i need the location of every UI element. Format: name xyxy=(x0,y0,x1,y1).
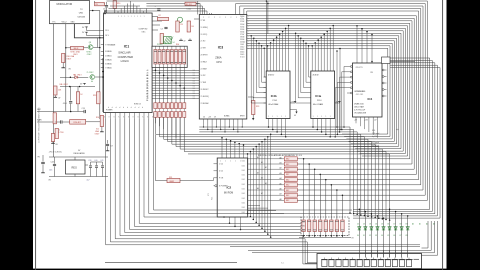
resistor R13 xyxy=(97,92,100,104)
svg-text:4u7: 4u7 xyxy=(87,180,90,182)
IC3 bottom pins xyxy=(203,119,205,127)
svg-text:IC4b: IC4b xyxy=(271,94,277,98)
svg-text:29: 29 xyxy=(214,116,216,118)
svg-text:27 M1: 27 M1 xyxy=(201,20,206,22)
drops to IC4a top pins xyxy=(311,46,313,71)
keyboard line KB8 xyxy=(144,119,301,217)
svg-text:POWER: POWER xyxy=(106,110,113,112)
IC1 left pin stubs xyxy=(101,30,104,32)
svg-text:D8: D8 xyxy=(399,223,401,225)
resistor R14 xyxy=(53,113,56,124)
svg-text:1: 1 xyxy=(128,16,129,18)
svg-text:1: 1 xyxy=(144,16,145,18)
+5V right of IC4a xyxy=(339,101,341,103)
svg-text:K8: K8 xyxy=(406,235,408,237)
svg-text:8K ROM: 8K ROM xyxy=(224,191,233,194)
svg-text:MIC: MIC xyxy=(37,109,41,111)
svg-text:8K2: 8K2 xyxy=(286,159,289,161)
svg-text:Q8: Q8 xyxy=(89,42,91,44)
resistor R24 4K7 xyxy=(70,120,86,125)
svg-text:A2: A2 xyxy=(280,167,282,170)
svg-text:K: K xyxy=(133,117,134,119)
svg-text:K2: K2 xyxy=(369,235,371,237)
keyboard line KB7 xyxy=(139,119,301,223)
svg-text:D0 1: D0 1 xyxy=(242,175,245,177)
junction xyxy=(69,86,71,88)
svg-text:by IC4: by IC4 xyxy=(372,136,377,138)
junction xyxy=(102,76,104,78)
wire from IC1 right xyxy=(152,16,158,18)
svg-text:K: K xyxy=(142,117,143,119)
connector end dash xyxy=(414,258,420,260)
svg-text:23 BUSAK: 23 BUSAK xyxy=(201,102,210,105)
ground xyxy=(62,66,64,68)
wire resistor to transistor xyxy=(84,47,89,49)
resistor R31 680R xyxy=(167,178,180,182)
svg-text:SINCLAIR: SINCLAIR xyxy=(118,51,130,55)
svg-text:D0 1: D0 1 xyxy=(242,165,245,167)
ground xyxy=(180,39,182,41)
capacitor C9 xyxy=(106,143,109,145)
svg-text:R3: R3 xyxy=(181,24,183,26)
svg-text:24 WAIT: 24 WAIT xyxy=(201,67,208,70)
svg-text:IC4a: IC4a xyxy=(315,94,321,98)
svg-text:D0 1: D0 1 xyxy=(242,189,245,191)
ground below R17 xyxy=(52,142,54,144)
svg-text:COPYRIGHT SINCLAIR RESEARCH LT: COPYRIGHT SINCLAIR RESEARCH LTD xyxy=(38,107,41,143)
left letterbox bar xyxy=(0,0,33,270)
resistor row 1 xyxy=(154,103,157,109)
resistor row 2 xyxy=(154,112,157,118)
svg-text:21 RD: 21 RD xyxy=(201,41,207,43)
transistor TR1 NTSC xyxy=(88,45,93,50)
resistor R8 380R xyxy=(71,46,84,49)
svg-text:K5: K5 xyxy=(387,235,389,237)
staircase resistor rows to lower bus xyxy=(154,117,156,134)
diode D1 xyxy=(358,227,361,230)
svg-text:o/p: o/p xyxy=(396,129,398,131)
wire to diode xyxy=(60,76,75,78)
EAR wire xyxy=(37,121,60,123)
diode D2 xyxy=(364,227,367,230)
IC3 top right pin bends xyxy=(235,4,237,15)
svg-text:-5V 1 OSC: -5V 1 OSC xyxy=(356,94,365,96)
wire transistor out xyxy=(95,76,103,78)
keyboard line KB4 xyxy=(125,119,301,233)
svg-text:D4: D4 xyxy=(375,223,377,225)
right letterbox bar xyxy=(447,0,480,270)
IC4 left staircase wires xyxy=(344,67,347,128)
battery wire xyxy=(42,155,44,162)
svg-text:D0: D0 xyxy=(193,75,195,77)
diode D3 xyxy=(370,227,373,230)
svg-text:NTSC: NTSC xyxy=(87,51,93,53)
svg-text:1: 1 xyxy=(330,116,331,118)
voltage regulator box xyxy=(66,160,86,174)
schematic frame left border xyxy=(35,0,37,270)
svg-text:D0 1: D0 1 xyxy=(242,184,245,186)
wire 0V IC4b xyxy=(290,109,297,111)
svg-text:8K2: 8K2 xyxy=(286,190,289,192)
svg-text:ONLY: ONLY xyxy=(87,54,93,56)
resistor R17 xyxy=(51,134,54,142)
vertical wires from top edge xyxy=(265,1,267,71)
diode verticals and diodes D1-D9 xyxy=(358,209,360,257)
svg-text:7 KB4D: 7 KB4D xyxy=(105,67,112,69)
drops to IC4 top pins xyxy=(356,26,358,63)
resistor R5 xyxy=(160,34,163,44)
svg-text:4 KB1D: 4 KB1D xyxy=(105,55,112,57)
svg-text:D0: D0 xyxy=(193,83,195,85)
resistor R2 xyxy=(158,17,169,20)
svg-text:26 RESET: 26 RESET xyxy=(201,89,209,91)
IC2 ROM box xyxy=(217,158,248,217)
svg-text:8K2: 8K2 xyxy=(286,179,289,181)
svg-text:4k: 4k xyxy=(91,81,93,83)
svg-text:KB3: KB3 xyxy=(302,230,305,232)
svg-text:1: 1 xyxy=(131,16,132,18)
svg-text:K: K xyxy=(114,117,115,119)
wire vertical video line xyxy=(99,11,101,120)
wire to IC3 xyxy=(194,18,199,20)
svg-text:REGULATED: REGULATED xyxy=(74,152,86,155)
svg-text:D0 1: D0 1 xyxy=(242,198,245,200)
svg-text:8K2: 8K2 xyxy=(286,164,289,166)
resistor pack 8 elements xyxy=(154,50,157,65)
IC4 left pins with bubbles xyxy=(350,66,352,68)
svg-text:12B: 12B xyxy=(370,72,373,74)
svg-text:C39: C39 xyxy=(88,160,91,162)
svg-text:N.B.: N.B. xyxy=(372,130,376,132)
bus IC1 to IC3 xyxy=(152,69,199,71)
svg-text:IC6: IC6 xyxy=(96,128,99,130)
svg-text:COMPUTER: COMPUTER xyxy=(118,55,133,59)
junction xyxy=(104,13,106,15)
svg-text:16 INT: 16 INT xyxy=(201,75,206,77)
IC4a left pin wires xyxy=(309,46,311,77)
keyboard line KB0 xyxy=(106,119,420,245)
diode D4 xyxy=(376,227,379,230)
keyboard connector outer box xyxy=(317,254,422,269)
svg-text:D6: D6 xyxy=(387,223,389,225)
svg-text:D0 1: D0 1 xyxy=(242,170,245,172)
resistor R10 xyxy=(113,1,116,9)
svg-text:K: K xyxy=(104,117,105,119)
wire to resistor xyxy=(66,47,71,49)
svg-text:D0: D0 xyxy=(193,91,195,93)
wire transistor to video line xyxy=(93,47,100,49)
svg-text:VID+2: VID+2 xyxy=(62,22,67,24)
svg-text:S=1: S=1 xyxy=(281,263,284,265)
svg-text:1: 1 xyxy=(277,116,278,118)
right bundle into connector right side xyxy=(422,221,429,248)
svg-text:D0: D0 xyxy=(193,98,195,100)
wire from IC1 right 3 xyxy=(152,24,160,26)
svg-text:R31: R31 xyxy=(169,177,172,179)
svg-text:KB1: KB1 xyxy=(302,222,305,224)
svg-text:R16: R16 xyxy=(96,117,99,119)
svg-text:28 RFSH: 28 RFSH xyxy=(201,55,209,57)
8 vertical resistors in dashed box xyxy=(302,220,305,232)
svg-text:K: K xyxy=(128,117,129,119)
svg-text:UM1233: UM1233 xyxy=(78,16,86,18)
svg-text:D0 1: D0 1 xyxy=(242,161,245,163)
svg-text:D0: D0 xyxy=(193,70,195,72)
svg-text:17 NMI: 17 NMI xyxy=(201,82,207,84)
capacitor C44 xyxy=(53,163,56,165)
svg-text:D0 1: D0 1 xyxy=(242,193,245,195)
junction xyxy=(104,10,106,12)
diode D5 xyxy=(382,227,385,230)
svg-text:K: K xyxy=(123,117,124,119)
svg-text:R4: R4 xyxy=(192,26,194,28)
svg-text:d: d xyxy=(135,107,136,109)
connector top entry stubs xyxy=(358,250,360,258)
svg-text:680R: 680R xyxy=(170,181,175,183)
svg-text:D9: D9 xyxy=(406,223,408,225)
capacitor C8 xyxy=(105,5,108,7)
svg-text:D0: D0 xyxy=(193,73,195,75)
svg-text:D0: D0 xyxy=(193,93,195,95)
wire from IC1 right 2 xyxy=(152,20,162,22)
wire modulator GND to IC1 xyxy=(74,24,103,38)
transistor TR2 PAL xyxy=(90,75,95,80)
svg-text:4Kx1 RAM: 4Kx1 RAM xyxy=(268,103,278,106)
schematic frame right border xyxy=(442,0,444,270)
svg-text:6 KB3D: 6 KB3D xyxy=(105,63,112,65)
svg-text:K0: K0 xyxy=(357,235,359,237)
bottom horizontal wire xyxy=(105,261,237,263)
resistor R15 xyxy=(55,129,58,139)
diode D9 xyxy=(75,76,78,79)
svg-text:KB2: KB2 xyxy=(302,226,305,228)
svg-text:16Kx1 RAM: 16Kx1 RAM xyxy=(354,106,364,109)
IC4b bottom pin drops xyxy=(268,119,270,128)
svg-text:D0: D0 xyxy=(193,88,195,90)
drops to keyboard resistor pack xyxy=(303,159,305,220)
capacitor C12 xyxy=(104,10,106,13)
svg-text:EAR: EAR xyxy=(37,119,42,122)
svg-text:8K2: 8K2 xyxy=(286,200,289,202)
capacitor C14 47uF xyxy=(69,101,72,103)
IC4a RAM 2114 box xyxy=(311,71,335,119)
resistor R23 xyxy=(252,101,255,115)
wire from X2 xyxy=(390,61,415,63)
svg-text:D0 1: D0 1 xyxy=(242,202,245,204)
svg-text:by 5V rail: by 5V rail xyxy=(372,144,380,147)
svg-text:P. ONLY: P. ONLY xyxy=(87,72,95,74)
top-left bus horizontals xyxy=(106,10,147,12)
svg-text:K3: K3 xyxy=(375,235,377,237)
svg-text:18 HALT: 18 HALT xyxy=(201,60,208,63)
svg-text:REG: REG xyxy=(72,166,77,169)
svg-text:TR4: TR4 xyxy=(60,132,63,134)
IC1 bottom pin stubs xyxy=(105,113,107,120)
resistor R1 xyxy=(185,2,196,5)
diode D8 xyxy=(400,227,403,230)
wire down to cap xyxy=(70,87,72,101)
svg-text:D0 1: D0 1 xyxy=(242,207,245,209)
svg-text:K1: K1 xyxy=(363,235,365,237)
svg-text:D1: D1 xyxy=(357,223,359,225)
diode D6 xyxy=(388,227,391,230)
svg-text:R24 4K7: R24 4K7 xyxy=(74,122,81,124)
svg-text:26: 26 xyxy=(203,116,205,118)
svg-text:380 R: 380 R xyxy=(74,48,79,50)
svg-text:K7: K7 xyxy=(399,235,401,237)
wire to R31 xyxy=(154,135,156,181)
svg-text:d: d xyxy=(112,107,113,109)
svg-text:K: K xyxy=(118,117,119,119)
drops to IC4b top pins xyxy=(267,46,269,71)
wire cap bottom xyxy=(106,8,108,11)
+2V mark xyxy=(86,32,88,34)
svg-text:4Kx1 RAM: 4Kx1 RAM xyxy=(313,103,323,106)
svg-text:D7: D7 xyxy=(393,223,395,225)
IC1 top pin wires to bus xyxy=(117,11,119,13)
svg-text:D2: D2 xyxy=(363,223,365,225)
svg-text:GND: GND xyxy=(71,22,76,24)
resistor R16 xyxy=(100,116,103,127)
diode D7 xyxy=(394,227,397,230)
svg-text:C44: C44 xyxy=(51,162,54,164)
svg-text:COMP VID: COMP VID xyxy=(139,29,149,31)
svg-text:D5: D5 xyxy=(381,223,383,225)
svg-text:K: K xyxy=(147,117,148,119)
wire modulator VID down xyxy=(65,24,67,112)
resistor R9 xyxy=(95,3,105,6)
svg-text:A6: A6 xyxy=(280,188,282,191)
verticals pack to resistor rows xyxy=(154,68,156,104)
main address/data bus: top runs, right verticals, lower left runs xyxy=(107,1,428,200)
ground below R16 xyxy=(101,130,103,132)
IC3 top pins to top bus xyxy=(197,1,199,15)
svg-text:d: d xyxy=(116,107,117,109)
wire resistor top stub xyxy=(94,1,96,3)
svg-text:8K2: 8K2 xyxy=(286,195,289,197)
transistor TR3 xyxy=(177,17,182,22)
IC1 ULA Sinclair logic chip xyxy=(104,13,153,113)
IC2 top pin wires xyxy=(221,138,223,158)
junction xyxy=(55,121,57,123)
svg-text:NTSC USA: NTSC USA xyxy=(71,50,81,53)
wire horizontal xyxy=(60,86,95,88)
battery symbol xyxy=(41,161,45,163)
svg-text:8K2: 8K2 xyxy=(286,185,289,187)
long bottom wrap lines xyxy=(230,246,420,248)
capacitors C39-C41 xyxy=(90,162,92,165)
svg-text:D0: D0 xyxy=(193,78,195,80)
svg-text:C 12u: C 12u xyxy=(187,9,192,11)
MIC wire xyxy=(37,111,84,113)
keyboard line KB2 xyxy=(115,119,317,263)
0V rail xyxy=(49,176,108,178)
IC4a bottom pin drops xyxy=(312,119,314,128)
svg-text:D0: D0 xyxy=(193,96,195,98)
svg-text:14: 14 xyxy=(173,42,175,44)
wire resistor to gnd xyxy=(62,63,64,67)
svg-text:A1: A1 xyxy=(280,162,282,165)
svg-text:A5: A5 xyxy=(280,182,282,185)
svg-text:PAL ONLY: PAL ONLY xyxy=(60,83,69,86)
vertical wire into IC1 left xyxy=(102,58,104,112)
svg-text:+12V 6 OSC: +12V 6 OSC xyxy=(356,91,366,93)
svg-text:K: K xyxy=(138,117,139,119)
left top bus segments from IC1 to IC3 xyxy=(146,3,185,5)
pullup resistor column xyxy=(284,157,297,161)
svg-text:C13: C13 xyxy=(82,108,85,110)
verticals right of IC4a xyxy=(336,51,338,127)
svg-text:P1/NET: P1/NET xyxy=(157,44,163,46)
svg-text:LOGIC: LOGIC xyxy=(121,59,129,63)
ground battery xyxy=(42,171,44,173)
capacitor C3 xyxy=(164,26,167,28)
capacitor C1 xyxy=(157,8,160,10)
svg-text:R31: R31 xyxy=(212,197,214,200)
svg-text:19 MREQ: 19 MREQ xyxy=(201,27,209,29)
svg-text:K6: K6 xyxy=(393,235,395,237)
keyboard line KB6 xyxy=(134,119,301,226)
keyboard resistor pack dashed box xyxy=(301,217,349,236)
junction xyxy=(92,10,94,12)
svg-text:1: 1 xyxy=(272,116,273,118)
IC2 bottom pins xyxy=(223,216,225,218)
junction xyxy=(99,47,101,49)
IC4 right pins with bubbles xyxy=(382,69,384,71)
svg-text:+9V @ 1.4V DC: +9V @ 1.4V DC xyxy=(49,151,63,153)
svg-text:IC4: IC4 xyxy=(368,97,373,101)
svg-text:8 KB0D: 8 KB0D xyxy=(105,51,112,53)
IC2 right pin wires xyxy=(248,158,284,160)
svg-text:A7: A7 xyxy=(280,193,282,196)
keyboard line KB3 xyxy=(120,119,317,264)
svg-text:5 KB2D: 5 KB2D xyxy=(105,59,112,61)
svg-text:8K2: 8K2 xyxy=(286,174,289,176)
svg-text:C45: C45 xyxy=(49,170,52,172)
svg-text:20 IORQ: 20 IORQ xyxy=(201,34,208,36)
svg-text:R1 2K2: R1 2K2 xyxy=(186,4,192,6)
svg-text:1 CD: 1 CD xyxy=(219,164,224,166)
svg-text:D0: D0 xyxy=(193,85,195,87)
svg-text:R10: R10 xyxy=(117,3,120,5)
junction xyxy=(102,71,104,73)
IC3 Z80 CPU box xyxy=(199,15,247,120)
keyboard line KB10 xyxy=(154,119,352,210)
modulator UM1233 box xyxy=(50,1,90,24)
9V rail xyxy=(49,156,108,158)
wire resistor to IC1 xyxy=(114,9,116,14)
wire modulator P/C down to 9V rail xyxy=(53,24,55,157)
svg-text:A3: A3 xyxy=(280,172,282,175)
svg-text:D0: D0 xyxy=(193,80,195,82)
svg-text:C41: C41 xyxy=(100,160,103,162)
IC4 bottom pins xyxy=(355,117,357,123)
resistor pack box RP1 xyxy=(152,46,187,67)
lower bus under IC3 with right bends down to diode feeds xyxy=(199,127,350,213)
svg-text:1: 1 xyxy=(313,116,314,118)
svg-text:K: K xyxy=(152,117,153,119)
junction xyxy=(79,86,81,88)
svg-text:ONLY: ONLY xyxy=(95,134,101,136)
svg-text:S POWER: S POWER xyxy=(219,186,228,188)
junction xyxy=(65,47,67,49)
wire diode to transistor xyxy=(78,76,88,78)
IC4b RAM 2114 box xyxy=(266,71,290,119)
svg-text:ON DATA LINE: ON DATA LINE xyxy=(354,111,367,114)
junction xyxy=(70,111,72,113)
svg-text:ROM CS: ROM CS xyxy=(134,104,142,106)
svg-text:C9: C9 xyxy=(111,146,113,148)
